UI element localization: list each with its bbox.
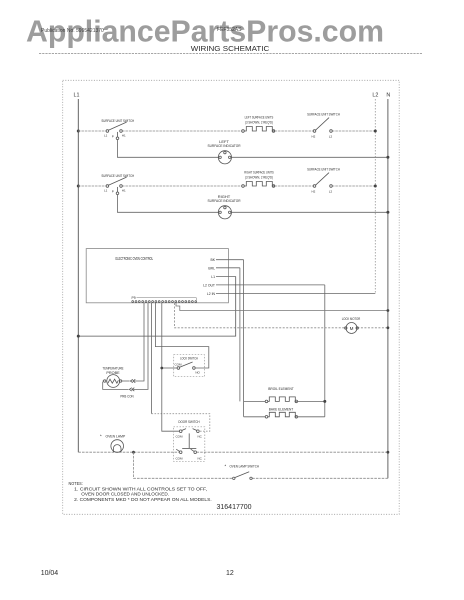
node junction L1/rowC	[77, 185, 80, 188]
switch SW1 surface unit switch (left, row A)	[101, 118, 134, 140]
wire row D (pilot to indicator to N)	[117, 195, 119, 213]
heater element bake element	[244, 407, 325, 419]
resistor RT1 temperature probe	[103, 367, 136, 399]
node junction motor/N	[387, 326, 390, 329]
svg-text:P: P	[112, 189, 114, 193]
wire row A dashed segments	[78, 130, 106, 132]
svg-text:P9: P9	[132, 296, 136, 300]
heater element broil element	[244, 386, 327, 403]
svg-text:WIRING SCHEMATIC: WIRING SCHEMATIC	[191, 44, 270, 53]
svg-text:2. COMPONENTS MKD * DO NOT AP: 2. COMPONENTS MKD * DO NOT APPEAR ON ALL…	[74, 497, 212, 502]
wire L1 bus	[77, 99, 79, 452]
svg-text:ELECTRONIC OVEN CONTROL: ELECTRONIC OVEN CONTROL	[116, 256, 154, 261]
node junction lock COM	[160, 367, 163, 370]
node junction rowB/N	[386, 156, 389, 159]
svg-text:SURFACE UNIT SWITCH: SURFACE UNIT SWITCH	[307, 167, 340, 172]
connector chevrons probe plug	[130, 379, 135, 382]
switch oven lamp switch	[225, 464, 260, 480]
svg-text:COM: COM	[175, 362, 183, 366]
wire lock motor line (dashed)	[175, 303, 346, 328]
svg-text:SURFACE INDICATOR: SURFACE INDICATOR	[208, 198, 241, 203]
wire lamp switch line y=478	[134, 452, 388, 478]
svg-text:P: P	[112, 134, 114, 138]
svg-text:12: 12	[226, 570, 234, 577]
svg-text:L1: L1	[211, 275, 215, 279]
connector P9 terminal strip	[132, 296, 197, 302]
svg-text:Publication No. 5995421370: Publication No. 5995421370	[41, 28, 104, 34]
wire oven lamp line y=452	[78, 451, 388, 453]
node junction L1/rowA	[77, 130, 80, 133]
switch SW2 surface unit switch (right, row A)	[307, 112, 340, 139]
svg-text:H2: H2	[312, 189, 316, 193]
motor M1 lock motor	[342, 316, 361, 333]
switch lock switch	[174, 355, 205, 377]
svg-text:OVEN LAMP: OVEN LAMP	[106, 433, 126, 438]
switch SW4 surface unit switch (right, row C)	[307, 167, 340, 194]
svg-text:SURFACE UNIT SWITCH: SURFACE UNIT SWITCH	[307, 112, 340, 117]
svg-text:(3 SHOWN, 2 REQ'D): (3 SHOWN, 2 REQ'D)	[245, 119, 273, 124]
svg-text:L2: L2	[329, 189, 333, 193]
svg-text:H1: H1	[122, 133, 126, 137]
node junction lamp switch branch	[132, 451, 135, 454]
svg-text:H1: H1	[122, 188, 126, 192]
svg-text:L1: L1	[104, 133, 108, 137]
heater element right surface units (row C)	[242, 170, 275, 188]
svg-text:FEF352AS: FEF352AS	[217, 27, 242, 33]
lamp oven lamp	[100, 433, 125, 452]
svg-text:1. CIRCUIT SHOWN WITH ALL CON: 1. CIRCUIT SHOWN WITH ALL CONTROLS SET T…	[74, 486, 207, 491]
svg-text:10/04: 10/04	[41, 570, 59, 577]
wire door NC loop (dashed)	[151, 303, 153, 414]
svg-text:*: *	[100, 433, 102, 438]
svg-text:*: *	[225, 464, 227, 469]
wire terminal verticals: probe upper lead	[134, 303, 144, 381]
node junction rowD/N	[386, 211, 389, 214]
svg-text:M: M	[350, 326, 354, 331]
svg-text:SURFACE UNIT SWITCH: SURFACE UNIT SWITCH	[101, 118, 134, 123]
wire lock switch NO loop	[155, 303, 208, 368]
svg-text:LOCK MOTOR: LOCK MOTOR	[342, 316, 361, 321]
svg-text:COM: COM	[176, 434, 184, 438]
wire probe lower lead	[133, 303, 148, 389]
wire BK pin down to bake element row	[243, 260, 245, 417]
node junction lamp line/N	[387, 451, 390, 454]
node junction rowA/L2	[374, 130, 377, 133]
wire L2 OUT down right side of elements	[324, 285, 326, 417]
svg-text:BRL: BRL	[208, 266, 215, 270]
svg-text:BROIL ELEMENT: BROIL ELEMENT	[268, 386, 294, 391]
wire EOC terminal to N (y=310.5)	[176, 303, 388, 311]
wire L1 pin down and left to L1 bus	[78, 277, 235, 337]
wire L2 bus (dashed)	[374, 99, 376, 294]
svg-text:H2: H2	[312, 134, 316, 138]
svg-text:L2 IN: L2 IN	[207, 292, 216, 296]
wire row C dashed segments	[78, 185, 106, 187]
svg-text:LOCK SWITCH: LOCK SWITCH	[180, 356, 198, 360]
SECTION:ROWS	[77, 112, 390, 219]
indicator lamp left surface indicator	[208, 139, 241, 164]
control board U1 electronic oven control box	[86, 249, 228, 303]
wire lock COM lead	[162, 367, 177, 369]
wire row B (pilot to indicator to N)	[117, 140, 119, 158]
schematic border frame	[63, 80, 400, 514]
svg-text:BAKE ELEMENT: BAKE ELEMENT	[269, 407, 294, 412]
svg-text:L2: L2	[372, 93, 378, 99]
svg-text:SURFACE UNIT SWITCH: SURFACE UNIT SWITCH	[101, 173, 134, 178]
svg-text:L1: L1	[104, 188, 108, 192]
node junction L1/EOC-L1 wire	[77, 335, 80, 338]
svg-text:316417700: 316417700	[217, 504, 252, 511]
svg-text:COM: COM	[176, 456, 184, 460]
node junction rowC/L2	[374, 185, 377, 188]
wire lock/door COM vertical	[162, 303, 179, 431]
switch SW3 surface unit switch (left, row C)	[101, 173, 134, 195]
wire BRL pin down to broil element row	[239, 268, 241, 402]
node junction y310/N	[387, 309, 390, 312]
svg-text:NC: NC	[198, 434, 203, 438]
svg-text:N: N	[386, 93, 390, 99]
SECTION:MIDWIRES	[77, 260, 390, 432]
title rule line	[39, 53, 423, 55]
svg-text:PRB CON: PRB CON	[120, 395, 133, 399]
indicator lamp right surface indicator	[208, 194, 241, 219]
heater element left surface units (row A)	[242, 115, 275, 133]
svg-text:SURFACE INDICATOR: SURFACE INDICATOR	[208, 143, 241, 148]
svg-text:L2: L2	[329, 134, 333, 138]
svg-text:DOOR SWITCH: DOOR SWITCH	[178, 420, 199, 424]
svg-text:PROBE: PROBE	[106, 371, 120, 375]
wire N bus	[387, 99, 389, 478]
svg-text:OVEN LAMP SWITCH: OVEN LAMP SWITCH	[230, 464, 260, 469]
svg-text:NO: NO	[195, 371, 200, 375]
svg-text:BK: BK	[210, 258, 215, 262]
svg-text:(3 SHOWN, 2 REQ'D): (3 SHOWN, 2 REQ'D)	[245, 174, 273, 179]
svg-text:L1: L1	[74, 93, 80, 99]
svg-text:NC: NC	[198, 456, 203, 460]
svg-text:L2 OUT: L2 OUT	[203, 283, 215, 287]
switch door switch	[174, 420, 205, 461]
